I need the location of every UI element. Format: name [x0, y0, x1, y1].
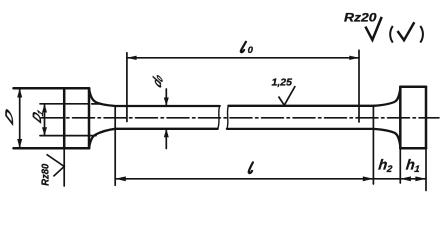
label l	[249, 162, 253, 173]
l extension line right	[372, 106, 374, 184]
arrowhead l0 right	[349, 56, 359, 60]
parenthesis left of (v)	[390, 26, 393, 43]
gauge section bottom edge left part	[115, 128, 218, 130]
right head left face extension below	[399, 148, 401, 183]
gauge section top edge right part	[228, 105, 373, 107]
D1 extension line top	[40, 103, 101, 105]
D1 extension line bottom	[40, 135, 96, 137]
gauge section bottom edge right part	[227, 128, 374, 130]
svg-text:1,25: 1,25	[272, 78, 293, 89]
right transition fillet bottom	[374, 129, 401, 147]
arrowhead h1 right	[415, 176, 426, 181]
left head bottom edge with D extension line	[14, 147, 90, 150]
dimension line D1	[44, 104, 46, 136]
right head bottom edge	[400, 147, 426, 150]
svg-text:0: 0	[248, 45, 254, 56]
arrowhead D1 bottom	[42, 127, 47, 136]
right head top edge	[400, 86, 426, 89]
svg-text:Rz80: Rz80	[40, 163, 51, 185]
arrowhead h1 left	[400, 176, 411, 181]
arrowhead l0 left	[127, 56, 137, 60]
l0 extension line right	[358, 50, 360, 122]
svg-text:D1: D1	[30, 104, 45, 126]
right head right face	[425, 87, 428, 148]
d0 dimension line lower	[165, 129, 167, 149]
roughness mark Rz80 check symbol	[47, 154, 65, 176]
break line right	[227, 106, 229, 129]
svg-text:h2: h2	[377, 158, 394, 175]
gauge section top edge left part	[115, 105, 220, 107]
svg-text:d0: d0	[150, 70, 164, 91]
dimension line D	[19, 88, 21, 148]
left head right face	[88, 88, 91, 148]
l0 extension line left	[126, 53, 128, 122]
d0 dimension line upper	[165, 89, 167, 106]
left transition fillet top	[89, 88, 115, 106]
arrowhead d0 upper (points down)	[164, 98, 169, 106]
right head left face	[399, 87, 402, 148]
svg-text:Rz20: Rz20	[344, 10, 377, 24]
centerline (axis)	[41, 117, 439, 119]
dimension line l, h2, h1	[115, 178, 426, 180]
arrowhead d0 lower (points up)	[164, 129, 169, 137]
l extension line left	[114, 106, 116, 185]
roughness mark Rz20 check symbol	[365, 17, 381, 40]
arrowhead D top	[17, 88, 22, 97]
left end face extension line below (for Rz80)	[63, 148, 65, 186]
arrowhead D bottom	[17, 139, 22, 148]
right head right face extension below	[425, 148, 427, 190]
label l0	[241, 42, 254, 56]
svg-text:D: D	[4, 105, 16, 129]
arrowhead l left	[115, 176, 126, 181]
svg-text:h1: h1	[405, 158, 421, 175]
parenthesis right of (v)	[420, 26, 423, 43]
left head left end face	[63, 88, 66, 148]
small check in parentheses	[398, 22, 415, 40]
arrowhead D1 top	[42, 104, 47, 113]
roughness mark 1,25 check symbol	[279, 86, 296, 105]
arrowhead l right	[363, 176, 374, 181]
left transition fillet bottom	[89, 129, 115, 148]
left head top edge with D extension line	[14, 87, 90, 90]
break line left	[218, 106, 220, 129]
right transition fillet top	[374, 88, 401, 105]
dimension line l0	[127, 57, 359, 59]
